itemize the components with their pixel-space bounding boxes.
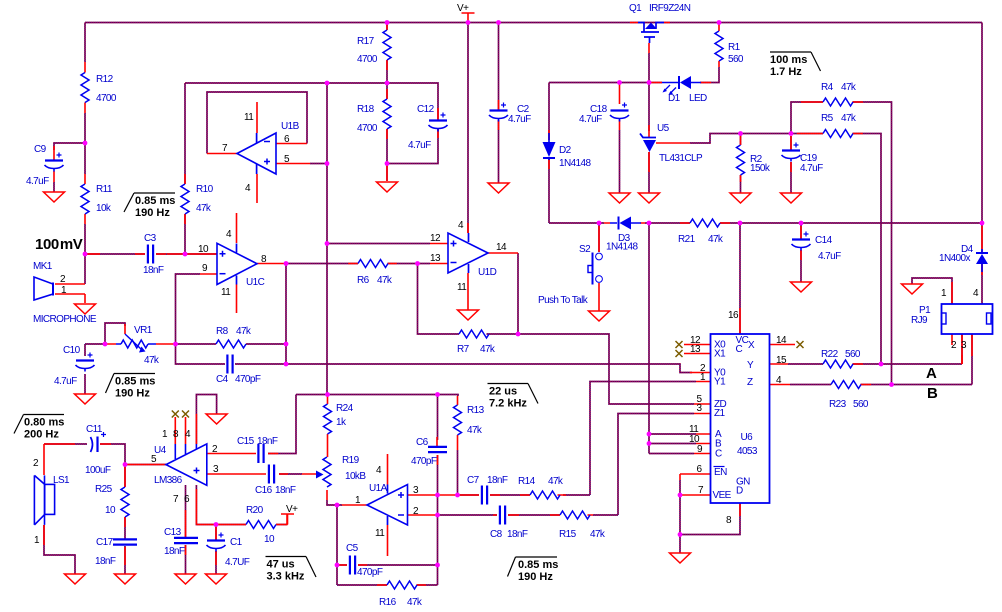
diode D1 LED: [662, 82, 701, 84]
svg-text:LS1: LS1: [53, 475, 70, 486]
svg-text:C17: C17: [96, 537, 114, 548]
svg-text:150k: 150k: [750, 163, 771, 174]
svg-text:47k: 47k: [407, 597, 423, 608]
op-amp U1D: [448, 233, 488, 273]
svg-text:VR1: VR1: [134, 325, 153, 336]
wire Q1 gate down to LED row: [648, 53, 650, 131]
wire U1D pin12 row: [327, 243, 430, 245]
svg-text:2: 2: [33, 458, 39, 469]
wire C1 branch: [215, 525, 217, 575]
capacitor C14: [792, 238, 810, 240]
svg-text:47k: 47k: [548, 476, 564, 487]
capacitor C17: [113, 538, 137, 540]
capacitor C8: [499, 506, 501, 525]
svg-text:R21: R21: [678, 234, 696, 245]
diode D2 1N4148: [543, 142, 556, 157]
svg-text:C6: C6: [416, 437, 429, 448]
resistor R23: [831, 381, 861, 389]
wire pin3 row (C7/R14): [458, 494, 531, 496]
resistor R15: [560, 511, 590, 519]
wire U4 pin5 output: [125, 464, 166, 466]
svg-text:D: D: [736, 486, 743, 497]
svg-text:C15: C15: [237, 436, 255, 447]
wire R16 row: [337, 584, 438, 586]
capacitor C2: [490, 109, 508, 111]
wire C9 stub: [54, 143, 85, 192]
svg-text:4700: 4700: [357, 123, 378, 134]
resistor R24: [324, 404, 332, 434]
svg-text:10: 10: [198, 244, 209, 255]
resistor R21: [690, 219, 720, 227]
wire P1 pin2 down to A row: [961, 334, 963, 364]
svg-text:100uF: 100uF: [85, 465, 111, 476]
svg-text:C3: C3: [144, 233, 157, 244]
wire R4 row: [791, 102, 892, 385]
microphone MK1: [34, 277, 53, 300]
transistor Q1 IRF9Z24N: [638, 23, 664, 33]
resistor R1: [715, 31, 723, 61]
svg-text:4.7uF: 4.7uF: [26, 176, 49, 187]
svg-text:47k: 47k: [708, 234, 724, 245]
svg-text:V+: V+: [457, 3, 469, 14]
wire R13 vertical: [457, 450, 459, 495]
ground R2: [730, 193, 751, 203]
resistor R8: [216, 340, 246, 348]
svg-text:18nF: 18nF: [257, 436, 278, 447]
wire S2 branch: [598, 223, 600, 252]
svg-text:18nF: 18nF: [164, 546, 185, 557]
svg-text:10k: 10k: [96, 203, 112, 214]
ground P1: [902, 284, 923, 294]
svg-text:190 Hz: 190 Hz: [115, 388, 150, 400]
power symbol V+ at R20: [281, 514, 294, 525]
svg-text:R13: R13: [467, 405, 485, 416]
svg-text:R18: R18: [357, 104, 375, 115]
svg-text:D1: D1: [668, 93, 681, 104]
capacitor C15: [257, 444, 259, 463]
wire C5 row: [337, 564, 438, 566]
resistor R7: [459, 330, 489, 338]
svg-text:4: 4: [376, 465, 382, 476]
wire C11 row: [44, 444, 125, 465]
wire VR1 wiper loop: [105, 323, 125, 344]
resistor R13: [454, 405, 462, 435]
svg-text:6: 6: [184, 494, 190, 505]
svg-text:3.3 kHz: 3.3 kHz: [267, 571, 305, 583]
svg-text:4700: 4700: [357, 54, 378, 65]
capacitor C9: [45, 159, 63, 161]
svg-text:R20: R20: [246, 505, 264, 516]
no-connect U4 pin1: [172, 411, 179, 418]
svg-text:C14: C14: [815, 235, 833, 246]
ground U4 pin4: [206, 414, 227, 424]
svg-text:4: 4: [458, 220, 464, 231]
svg-text:R23: R23: [829, 399, 847, 410]
no-connect X0: [676, 341, 683, 348]
resistor R5: [823, 130, 853, 138]
wire U5 ref to R5 node: [690, 134, 791, 144]
svg-text:4.7uF: 4.7uF: [508, 114, 531, 125]
svg-text:R12: R12: [96, 74, 114, 85]
svg-text:4: 4: [185, 429, 191, 440]
svg-text:C: C: [736, 344, 743, 355]
svg-text:0.85 ms: 0.85 ms: [135, 195, 175, 207]
svg-text:47k: 47k: [841, 113, 857, 124]
svg-text:47k: 47k: [590, 529, 606, 540]
ground C13: [175, 574, 196, 584]
capacitor C6: [428, 446, 447, 448]
wire R5 row: [791, 134, 881, 365]
svg-text:C1: C1: [230, 537, 243, 548]
svg-text:7.2 kHz: 7.2 kHz: [489, 398, 527, 410]
wire pin2 row (C8/R15): [438, 514, 561, 516]
svg-text:IRF9Z24N: IRF9Z24N: [649, 3, 691, 14]
svg-text:R4: R4: [821, 82, 834, 93]
wire right rail down to 223 row: [981, 23, 983, 224]
svg-text:LM386: LM386: [154, 475, 183, 486]
svg-text:U6: U6: [741, 432, 754, 443]
svg-text:S2: S2: [579, 244, 591, 255]
capacitor C11: [91, 437, 93, 452]
svg-text:18nF: 18nF: [95, 556, 116, 567]
svg-text:4.7uF: 4.7uF: [818, 251, 841, 262]
annotation 0.85ms near C10: [114, 373, 155, 375]
ground U5: [639, 193, 660, 203]
svg-text:14: 14: [776, 335, 787, 346]
wire U1B feedback box: [207, 92, 307, 154]
svg-text:R24: R24: [336, 403, 354, 414]
annotation 47us near C1: [266, 556, 307, 558]
svg-text:U1C: U1C: [246, 277, 265, 288]
wire U1D feedback x=417.5: [418, 264, 460, 335]
svg-text:U5: U5: [657, 123, 670, 134]
wire R2 branch: [740, 134, 742, 194]
svg-text:7: 7: [173, 494, 179, 505]
svg-text:47k: 47k: [377, 275, 393, 286]
ground C2: [488, 183, 509, 193]
svg-text:200 Hz: 200 Hz: [24, 429, 59, 441]
svg-text:LED: LED: [689, 93, 707, 104]
svg-text:4: 4: [245, 183, 251, 194]
wire U1B output net x=327: [326, 83, 328, 395]
VR1 wiper arrow: [125, 334, 141, 349]
ground C17: [115, 574, 136, 584]
svg-text:3: 3: [961, 340, 967, 351]
svg-text:4.7uF: 4.7uF: [800, 163, 823, 174]
wire A/B/C control net x=649: [649, 223, 696, 454]
svg-text:11: 11: [375, 528, 385, 539]
svg-text:10: 10: [105, 505, 116, 516]
capacitor C13: [174, 537, 198, 539]
wire D4 branch to P1 pin4: [981, 223, 983, 304]
svg-text:Push To Talk: Push To Talk: [538, 295, 589, 306]
wire U1C pin9 loop x=175.5: [176, 274, 201, 344]
svg-text:16: 16: [728, 310, 739, 321]
svg-text:1: 1: [162, 429, 168, 440]
svg-text:R14: R14: [518, 476, 536, 487]
ground LS1: [65, 574, 86, 584]
ground C9: [44, 192, 65, 202]
svg-text:2: 2: [951, 340, 957, 351]
annotation 0.80ms near LS1: [24, 414, 65, 416]
svg-text:1N4148: 1N4148: [606, 242, 638, 253]
op-amp U1B: [237, 133, 276, 174]
wire C2 branch: [498, 23, 500, 184]
ground C19: [781, 193, 802, 203]
svg-text:4700: 4700: [96, 93, 117, 104]
wire R24 node row y=394.5: [296, 395, 458, 397]
svg-text:C11: C11: [86, 424, 103, 435]
no-connect X1: [676, 350, 683, 357]
wire R17/R18 branch x=387: [386, 23, 388, 182]
resistor R12: [81, 73, 89, 103]
svg-text:R6: R6: [357, 275, 370, 286]
svg-text:C5: C5: [346, 543, 359, 554]
resistor R11: [81, 184, 89, 214]
svg-text:190 Hz: 190 Hz: [135, 207, 170, 219]
svg-text:11: 11: [244, 112, 254, 123]
annotation 100ms near R1: [770, 51, 811, 53]
multiplexer U6 4053: [711, 334, 770, 503]
op-amp U1A: [367, 485, 408, 526]
svg-text:RJ9: RJ9: [911, 315, 928, 326]
wire U4 pin7 to C13: [185, 485, 187, 574]
resistor R18: [383, 99, 391, 129]
svg-text:C12: C12: [417, 104, 435, 115]
svg-text:B: B: [927, 385, 938, 402]
capacitor C5: [349, 556, 351, 575]
svg-text:47k: 47k: [196, 203, 212, 214]
svg-text:4.7uF: 4.7uF: [54, 376, 77, 387]
wire R25/C17 branch: [124, 465, 126, 575]
wire U6 pin8 to ground node: [680, 503, 740, 535]
svg-text:8: 8: [726, 515, 732, 526]
wire C14 branch: [800, 223, 802, 282]
capacitor C16: [268, 465, 270, 484]
wire Y1 net x=590: [563, 382, 696, 496]
svg-text:R11: R11: [96, 184, 113, 195]
wire R12 branch x=85: [84, 23, 86, 255]
wire B row from R23: [790, 384, 972, 386]
svg-text:1k: 1k: [336, 417, 347, 428]
svg-text:C7: C7: [467, 475, 480, 486]
svg-text:R19: R19: [342, 455, 360, 466]
svg-text:R17: R17: [357, 36, 375, 47]
wire U4 pin6 to R20/V+ row: [196, 485, 287, 525]
svg-text:TL431CLP: TL431CLP: [659, 153, 703, 164]
ground U1D pin11: [458, 310, 479, 320]
resistor R14: [530, 491, 560, 499]
svg-text:8: 8: [173, 429, 179, 440]
svg-text:MK1: MK1: [33, 261, 53, 272]
capacitor C12: [429, 119, 447, 121]
wire y=223 PTT row: [549, 222, 982, 224]
svg-text:10kB: 10kB: [345, 471, 366, 482]
wire C18 bottom to ground: [619, 130, 621, 193]
svg-text:C8: C8: [490, 529, 503, 540]
svg-text:C10: C10: [63, 345, 81, 356]
svg-text:R10: R10: [196, 184, 214, 195]
wire U4 pin4 to ground: [196, 395, 216, 445]
svg-text:MICROPHONE: MICROPHONE: [33, 314, 97, 325]
svg-text:Z1: Z1: [714, 408, 726, 419]
capacitor C7: [481, 486, 483, 505]
svg-text:11: 11: [457, 282, 467, 293]
ground C1: [206, 574, 227, 584]
svg-text:R22: R22: [821, 349, 839, 360]
ground MK1: [75, 304, 96, 314]
op-amp U1C: [217, 243, 257, 284]
wire U6 pin16 supply: [739, 223, 741, 334]
wire P1 pin1 to ground: [912, 278, 952, 304]
svg-text:470pF: 470pF: [235, 374, 261, 385]
wire C16 to R19 wiper: [279, 473, 302, 475]
annotation 0.85ms near R10: [134, 192, 175, 194]
svg-text:18nF: 18nF: [507, 529, 528, 540]
red pin stubs: [84, 62, 86, 113]
svg-text:47k: 47k: [841, 82, 857, 93]
svg-text:1: 1: [941, 288, 947, 299]
svg-text:560: 560: [728, 54, 744, 65]
wire P1 pin3 down to B row: [971, 334, 973, 385]
svg-text:V+: V+: [286, 504, 298, 515]
speaker LS1: [34, 475, 44, 525]
svg-text:10: 10: [264, 534, 275, 545]
ground U6: [670, 553, 691, 563]
svg-text:4.7uF: 4.7uF: [579, 114, 602, 125]
svg-text:470pF: 470pF: [357, 567, 383, 578]
svg-text:47k: 47k: [480, 344, 496, 355]
svg-text:14: 14: [496, 242, 507, 253]
svg-text:560: 560: [853, 399, 869, 410]
svg-text:190 Hz: 190 Hz: [518, 571, 553, 583]
svg-text:Q1: Q1: [629, 3, 642, 14]
wire U1C out to R6 to U1D pin13: [286, 263, 430, 265]
svg-text:4: 4: [226, 229, 232, 240]
svg-text:1.7 Hz: 1.7 Hz: [770, 66, 802, 78]
annotation 0.85ms near R15: [516, 556, 558, 558]
ground C18: [609, 193, 630, 203]
wire y=83 row to C12: [185, 83, 438, 120]
svg-text:C9: C9: [34, 144, 47, 155]
svg-text:4: 4: [973, 288, 979, 299]
svg-text:22 us: 22 us: [489, 386, 517, 398]
wire Y0 net long row y=364: [286, 364, 692, 373]
svg-text:Y1: Y1: [714, 377, 726, 388]
wire V+ top rail: [85, 22, 982, 24]
svg-text:C13: C13: [164, 527, 182, 538]
svg-text:0.80 ms: 0.80 ms: [24, 417, 64, 429]
svg-text:560: 560: [845, 349, 861, 360]
diode D4 1N400x: [976, 254, 988, 264]
svg-text:R8: R8: [216, 326, 229, 337]
wire EN/VEE to ground: [679, 480, 681, 553]
junction dots: [83, 141, 88, 146]
svg-text:1: 1: [34, 535, 40, 546]
power symbol V+ top: [462, 13, 475, 23]
svg-text:100mV: 100mV: [35, 236, 83, 253]
svg-text:18nF: 18nF: [143, 265, 164, 276]
svg-text:11: 11: [221, 287, 231, 298]
svg-text:R7: R7: [457, 344, 470, 355]
svg-text:X1: X1: [714, 349, 726, 360]
capacitor C19: [782, 149, 800, 151]
svg-text:100 ms: 100 ms: [770, 54, 807, 66]
ground R18: [377, 182, 398, 192]
wire y=82.5 LED row: [549, 67, 719, 83]
svg-text:R15: R15: [559, 529, 577, 540]
svg-text:R16: R16: [379, 597, 397, 608]
wire A row from R22: [788, 363, 962, 365]
capacitor C10: [76, 359, 94, 361]
svg-text:47k: 47k: [236, 326, 252, 337]
no-connect X out: [797, 341, 804, 348]
resistor R2: [737, 145, 745, 175]
capacitor C3: [147, 245, 149, 264]
resistor R10: [181, 184, 189, 214]
wire R19 bottom to U1A output: [327, 500, 342, 505]
svg-text:U1D: U1D: [478, 267, 497, 278]
wire U5 anode to ground: [648, 152, 650, 193]
potentiometer R19: [323, 457, 331, 487]
svg-text:U1A: U1A: [369, 483, 388, 494]
wire x=286 down to R8/C4 rows: [285, 264, 287, 365]
svg-text:4053: 4053: [737, 446, 758, 457]
wire R10 branch x=185: [184, 83, 186, 254]
wire R7 row to ZD corner: [487, 334, 695, 404]
shunt regulator U5 TL431CLP: [640, 134, 656, 138]
svg-text:A: A: [926, 365, 937, 382]
wire C10 stub: [85, 344, 105, 394]
svg-text:R1: R1: [728, 42, 741, 53]
wire U1A out down x=337 to C5/R16: [336, 505, 338, 585]
annotation 22us near R13: [488, 383, 529, 385]
R19 wiper arrow: [316, 471, 324, 479]
ground S2: [589, 311, 610, 321]
svg-text:1N4148: 1N4148: [559, 158, 591, 169]
svg-text:R5: R5: [821, 113, 834, 124]
resistor R20: [246, 521, 276, 529]
svg-text:R25: R25: [95, 484, 113, 495]
svg-text:Z: Z: [747, 377, 753, 388]
svg-text:C4: C4: [216, 374, 229, 385]
ground C10: [75, 394, 96, 404]
wire C12 bottom to R18 node: [387, 128, 438, 164]
svg-text:47k: 47k: [144, 355, 160, 366]
wire LS1 pin1 to ground: [44, 525, 75, 574]
resistor R16: [387, 581, 417, 589]
wire R8 row: [176, 343, 287, 345]
svg-text:12: 12: [430, 233, 441, 244]
capacitor C4: [226, 355, 228, 374]
svg-text:9: 9: [202, 263, 208, 274]
audio amp U4 LM386: [166, 444, 207, 485]
diode D3 1N4148: [610, 222, 641, 224]
svg-text:13: 13: [430, 253, 441, 264]
resistor R22: [823, 360, 853, 368]
potentiometer VR1: [116, 343, 156, 345]
svg-text:47k: 47k: [467, 425, 483, 436]
svg-text:EN: EN: [714, 467, 727, 478]
capacitor C1: [207, 539, 225, 541]
resistor R6: [358, 260, 388, 268]
resistor R25: [121, 487, 129, 517]
svg-text:U1B: U1B: [281, 121, 300, 132]
svg-text:4.7UF: 4.7UF: [225, 557, 250, 568]
connector P1 RJ9: [942, 304, 993, 334]
svg-text:470pF: 470pF: [411, 456, 437, 467]
capacitor C18: [611, 109, 629, 111]
